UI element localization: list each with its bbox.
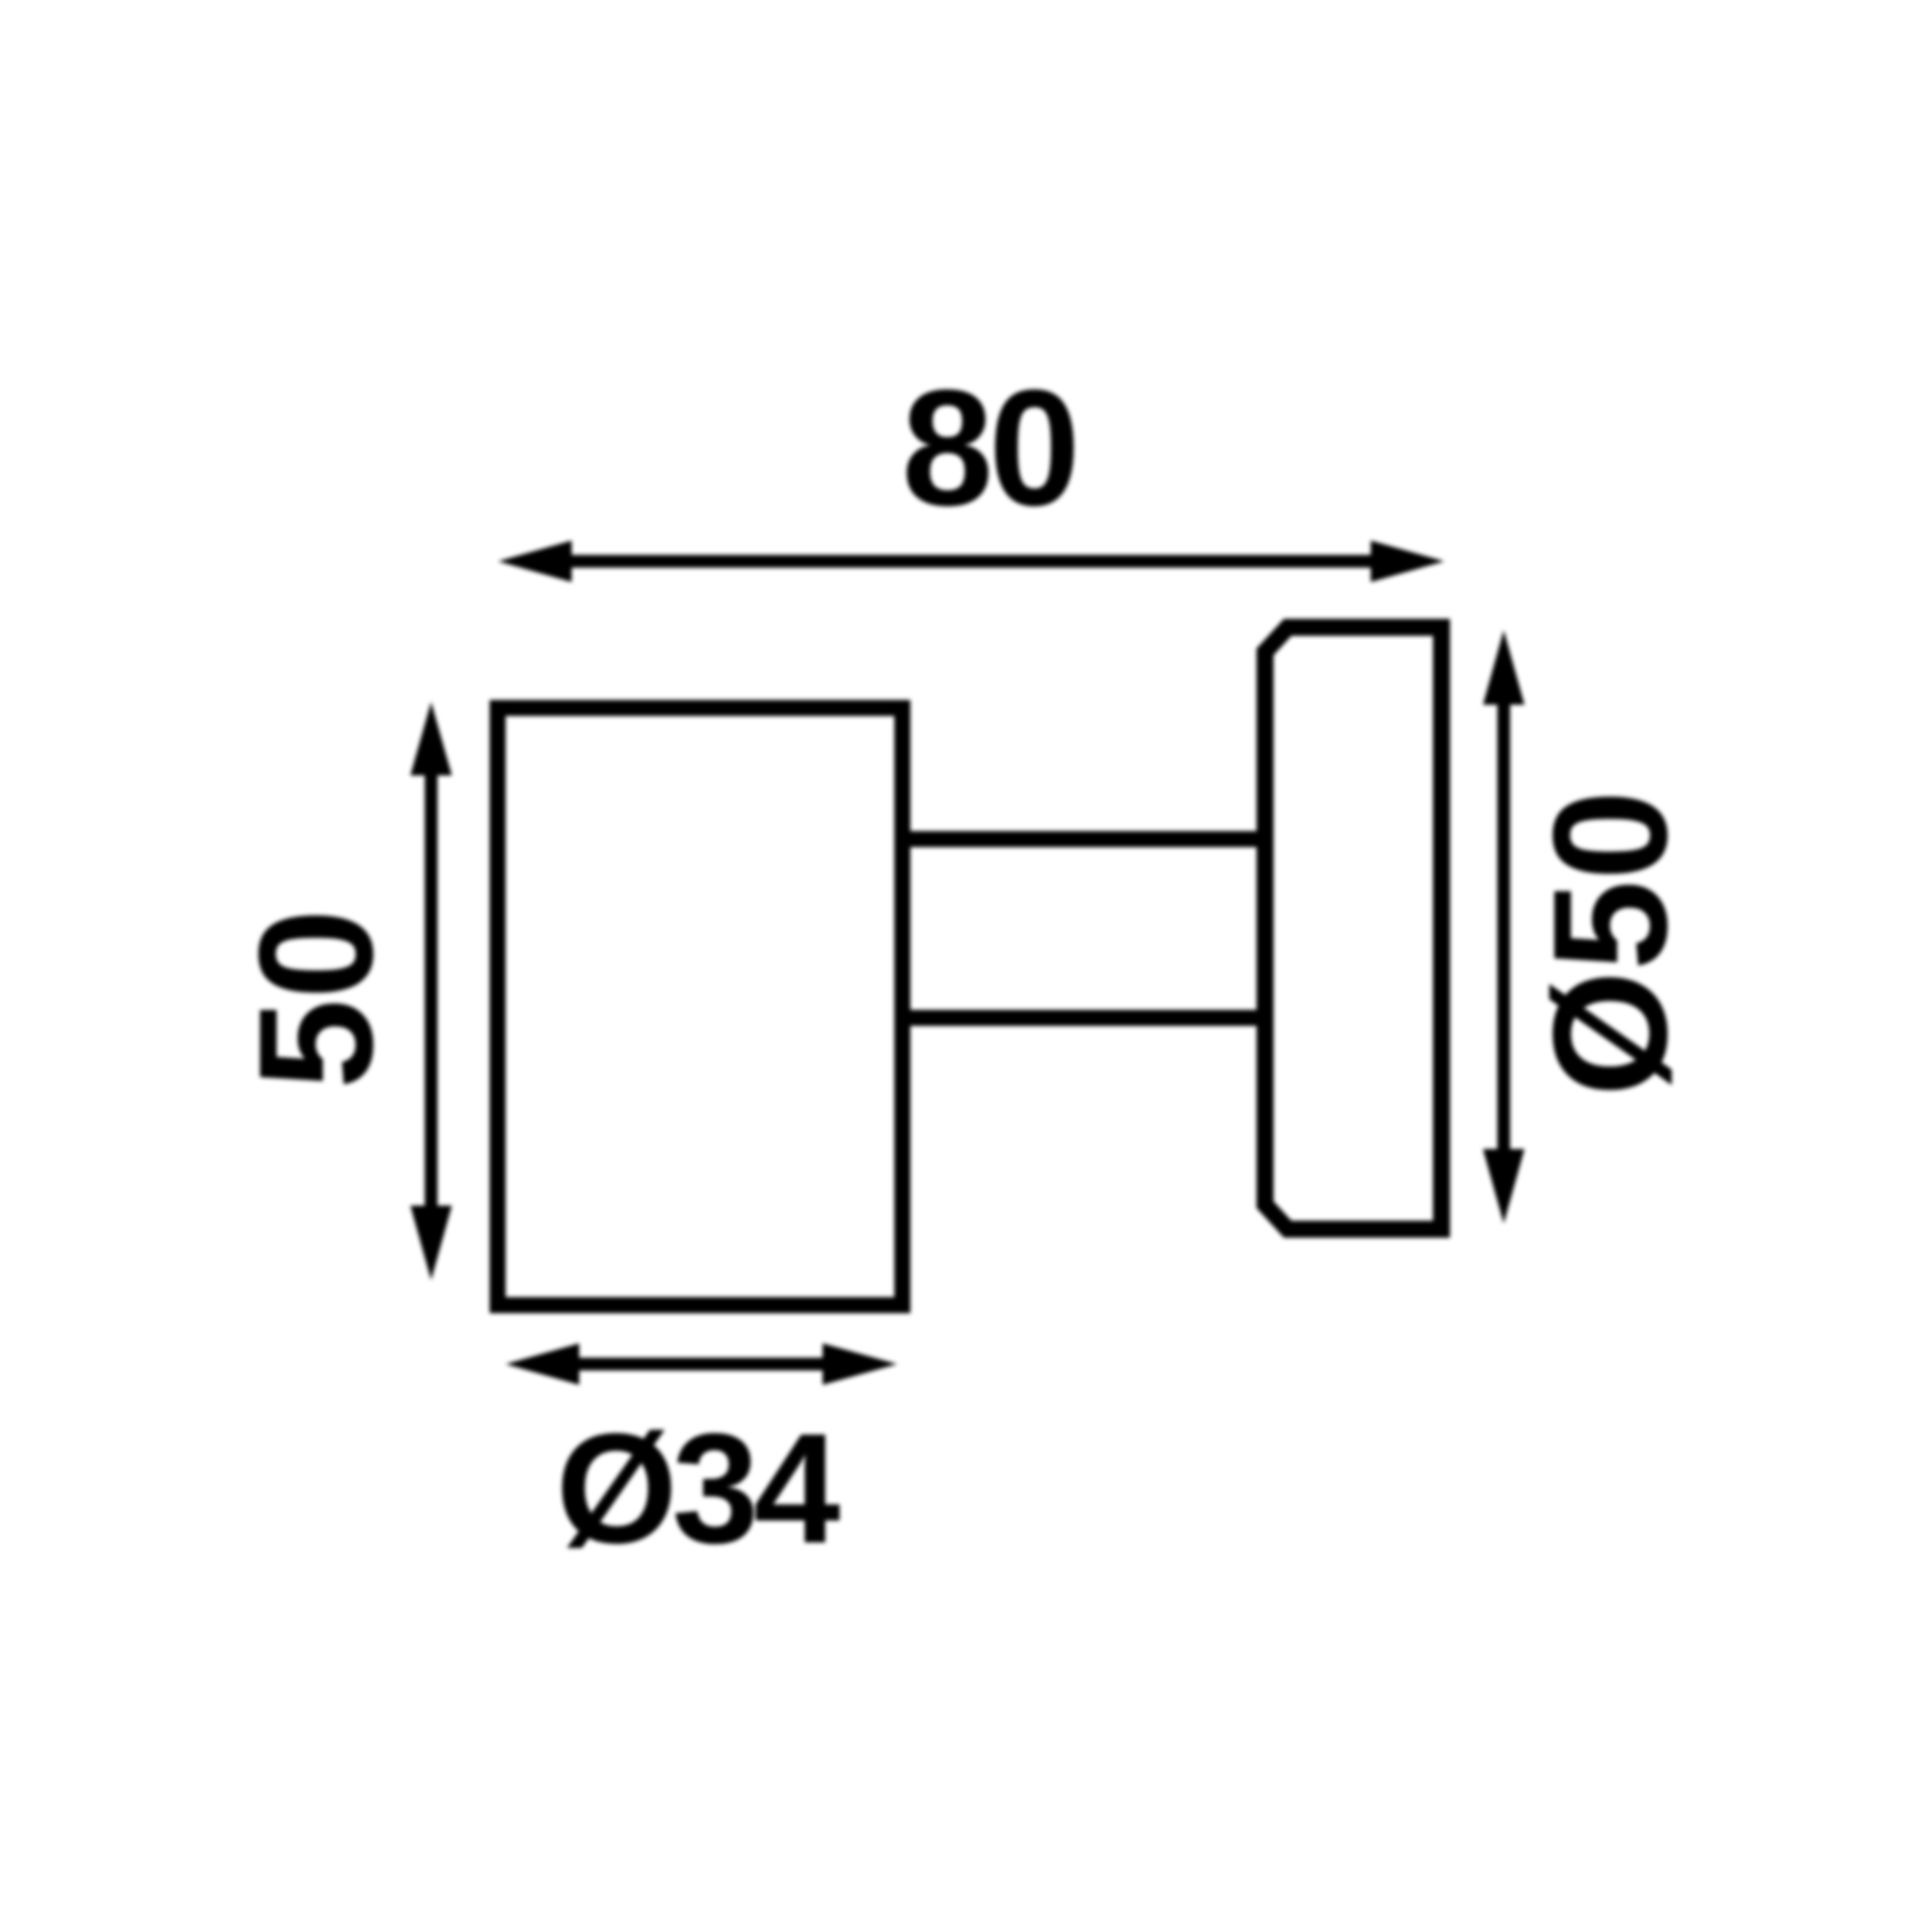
svg-text:80: 80 xyxy=(902,357,1076,541)
svg-text:Ø50: Ø50 xyxy=(1520,790,1701,1096)
svg-text:50: 50 xyxy=(225,908,407,1089)
svg-text:Ø34: Ø34 xyxy=(556,1402,840,1576)
